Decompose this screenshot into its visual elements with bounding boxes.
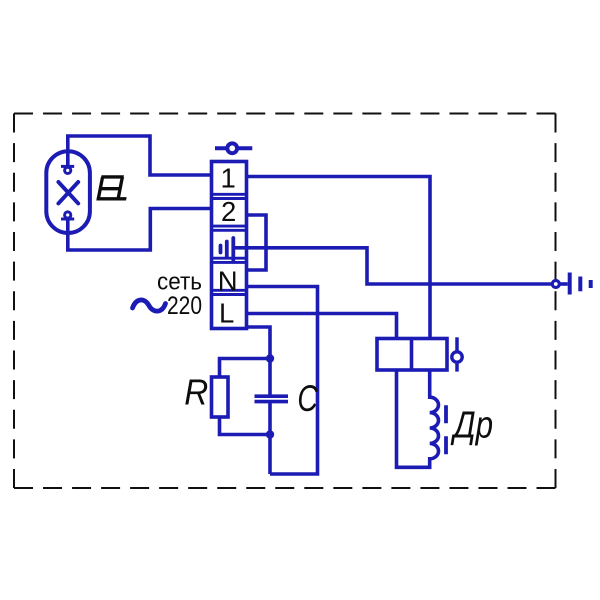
- svg-text:N: N: [218, 266, 238, 297]
- svg-text:2: 2: [221, 196, 236, 227]
- svg-text:220: 220: [167, 292, 202, 320]
- svg-text:R: R: [184, 372, 208, 413]
- svg-text:C: C: [297, 378, 318, 419]
- svg-text:L: L: [219, 298, 234, 329]
- svg-text:Др: Др: [450, 405, 493, 447]
- svg-text:1: 1: [221, 163, 236, 194]
